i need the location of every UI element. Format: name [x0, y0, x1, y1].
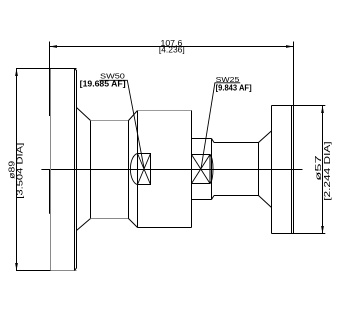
- right disk inner face line: [291, 106, 293, 234]
- right disk left edge: [271, 106, 273, 234]
- hex SW50 section right edge: [191, 111, 193, 228]
- svg-text:[2.244 DIA]: [2.244 DIA]: [323, 141, 332, 200]
- shaft top edge: [214, 142, 259, 144]
- cone flange-to-hub bottom: [77, 219, 91, 231]
- flange right face outer line: [75, 69, 77, 271]
- dia89 dimension line: [16, 69, 18, 271]
- arrow left of 107.6 dim: [50, 45, 58, 48]
- SW25 section bottom edge: [192, 199, 212, 201]
- hub top edge: [91, 120, 129, 122]
- leader SW50: [99, 80, 144, 169]
- SW25 flat arc: [210, 155, 213, 184]
- leader SW25: [201, 83, 240, 169]
- cone flange-to-hub top: [77, 108, 91, 121]
- hub left edge: [90, 121, 92, 219]
- length dim extension left: [49, 42, 51, 117]
- arrow bottom of dia57 dim: [321, 226, 324, 234]
- shaft bottom edge: [214, 195, 259, 197]
- cone shaft-to-disk bottom: [259, 196, 272, 208]
- flange (left disk) left face: [50, 69, 52, 271]
- flange top edge + extension to dia89 dim: [16, 68, 77, 70]
- arrow right of 107.6 dim: [286, 45, 294, 48]
- flange bottom extension (black part): [16, 270, 51, 272]
- flange bottom edge (gray part): [51, 270, 77, 272]
- arrow bottom of dia89 dim: [15, 263, 18, 271]
- dimension line 107.6: [50, 46, 294, 48]
- SW25 wrench-flat box: [192, 155, 211, 184]
- flange right face inner line: [74, 69, 76, 271]
- SW50 flat arc: [130, 154, 137, 185]
- chamfer SW25-to-shaft top: [212, 139, 215, 143]
- right disk right edge / length dim extension: [293, 42, 295, 234]
- shaft end edge: [258, 143, 260, 196]
- chamfer hub-to-hex top: [129, 111, 138, 121]
- chamfer SW25-to-shaft bottom: [212, 196, 215, 200]
- svg-text:[3.504 DIA]: [3.504 DIA]: [16, 143, 25, 199]
- hub right edge: [128, 121, 130, 219]
- centerline: [41, 169, 302, 171]
- hex SW50 section bottom edge: [138, 227, 192, 229]
- SW25 flat diagonal 1: [192, 155, 211, 184]
- flange inner edge segment: [49, 169, 51, 214]
- hex SW50 section left edge: [137, 111, 139, 228]
- SW25 section right edge: [211, 139, 213, 200]
- SW25 flat diagonal 2: [192, 155, 211, 184]
- hub bottom edge: [91, 218, 129, 220]
- svg-text:[4.236]: [4.236]: [159, 45, 185, 54]
- SW50 wrench-flat box: [138, 154, 151, 185]
- arrow top of dia57 dim: [321, 106, 324, 114]
- SW50 flat diagonal 2: [138, 154, 151, 185]
- right disk bottom edge + extension to dia57 dim: [272, 233, 326, 235]
- dia57 dimension line: [322, 106, 324, 234]
- cone shaft-to-disk top: [259, 131, 272, 143]
- SW25 section top edge: [192, 138, 212, 140]
- hex SW50 section top edge: [138, 110, 192, 112]
- right disk top edge + extension to dia57 dim: [272, 105, 326, 107]
- chamfer hub-to-hex bottom: [129, 219, 138, 228]
- SW50 flat diagonal 1: [138, 154, 151, 185]
- arrow top of dia89 dim: [15, 69, 18, 77]
- svg-text:[9.843 AF]: [9.843 AF]: [216, 83, 252, 92]
